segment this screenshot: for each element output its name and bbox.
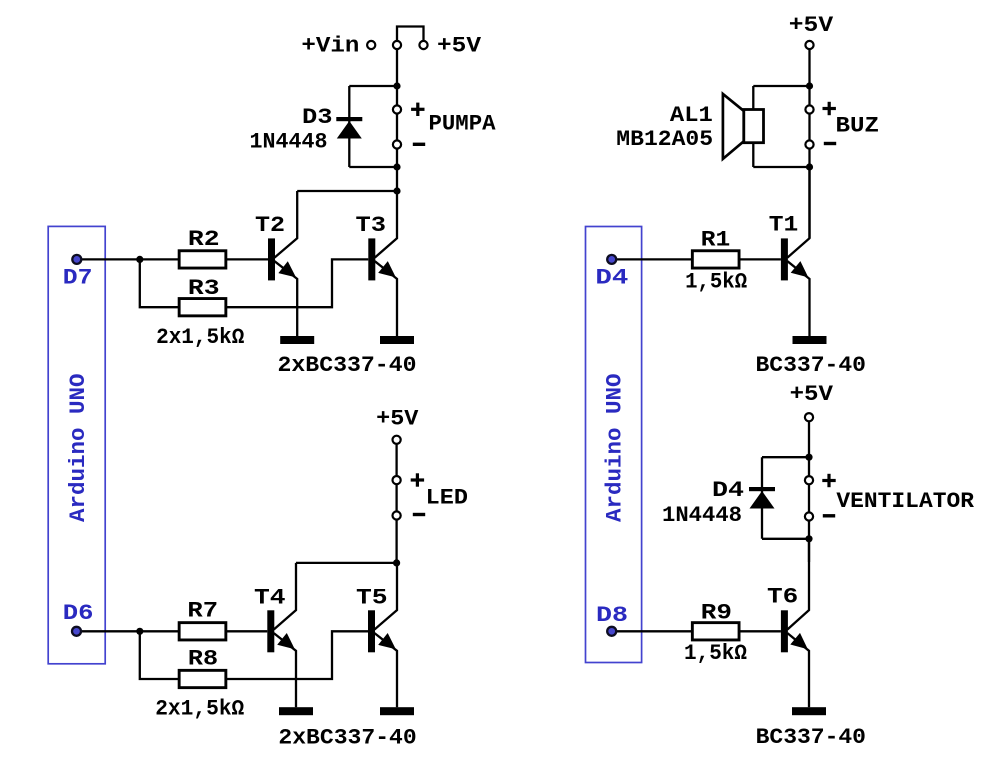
- svg-text:1,5kΩ: 1,5kΩ: [684, 641, 747, 666]
- svg-text:D8: D8: [596, 603, 628, 628]
- svg-text:Arduino UNO: Arduino UNO: [603, 374, 628, 523]
- svg-text:R7: R7: [187, 598, 218, 623]
- svg-text:+5V: +5V: [376, 407, 419, 432]
- svg-text:R1: R1: [701, 228, 731, 253]
- svg-text:D4: D4: [712, 478, 744, 503]
- svg-text:2x1,5kΩ: 2x1,5kΩ: [155, 697, 244, 722]
- svg-text:VENTILATOR: VENTILATOR: [836, 489, 974, 514]
- svg-text:R2: R2: [188, 227, 220, 252]
- svg-text:R8: R8: [188, 647, 218, 672]
- svg-text:+5V: +5V: [790, 382, 834, 407]
- svg-text:BC337-40: BC337-40: [756, 353, 867, 378]
- svg-text:MB12A05: MB12A05: [616, 127, 713, 152]
- svg-text:2xBC337-40: 2xBC337-40: [278, 726, 416, 751]
- svg-text:1N4448: 1N4448: [250, 130, 328, 155]
- svg-text:R9: R9: [701, 601, 732, 626]
- svg-text:LED: LED: [426, 486, 468, 511]
- svg-text:1,5kΩ: 1,5kΩ: [685, 270, 747, 295]
- svg-text:T4: T4: [254, 586, 286, 611]
- svg-text:T5: T5: [356, 586, 388, 611]
- svg-text:Arduino UNO: Arduino UNO: [66, 374, 91, 523]
- svg-text:+5V: +5V: [789, 13, 834, 38]
- svg-text:AL1: AL1: [670, 103, 713, 128]
- svg-text:T1: T1: [769, 213, 799, 238]
- svg-text:BUZ: BUZ: [836, 114, 880, 139]
- svg-text:T6: T6: [767, 585, 798, 610]
- svg-text:T3: T3: [356, 213, 387, 238]
- svg-text:PUMPA: PUMPA: [429, 112, 497, 137]
- svg-text:T2: T2: [255, 213, 285, 238]
- svg-text:D6: D6: [63, 601, 94, 626]
- svg-text:D7: D7: [63, 266, 93, 291]
- svg-text:+5V: +5V: [437, 34, 482, 59]
- svg-text:BC337-40: BC337-40: [756, 725, 866, 750]
- svg-text:+Vin: +Vin: [301, 34, 359, 59]
- svg-text:D3: D3: [302, 105, 333, 130]
- svg-text:1N4448: 1N4448: [662, 503, 742, 528]
- svg-text:D4: D4: [595, 265, 628, 290]
- svg-text:2x1,5kΩ: 2x1,5kΩ: [156, 325, 244, 350]
- svg-text:R3: R3: [188, 276, 220, 301]
- svg-text:2xBC337-40: 2xBC337-40: [278, 353, 417, 378]
